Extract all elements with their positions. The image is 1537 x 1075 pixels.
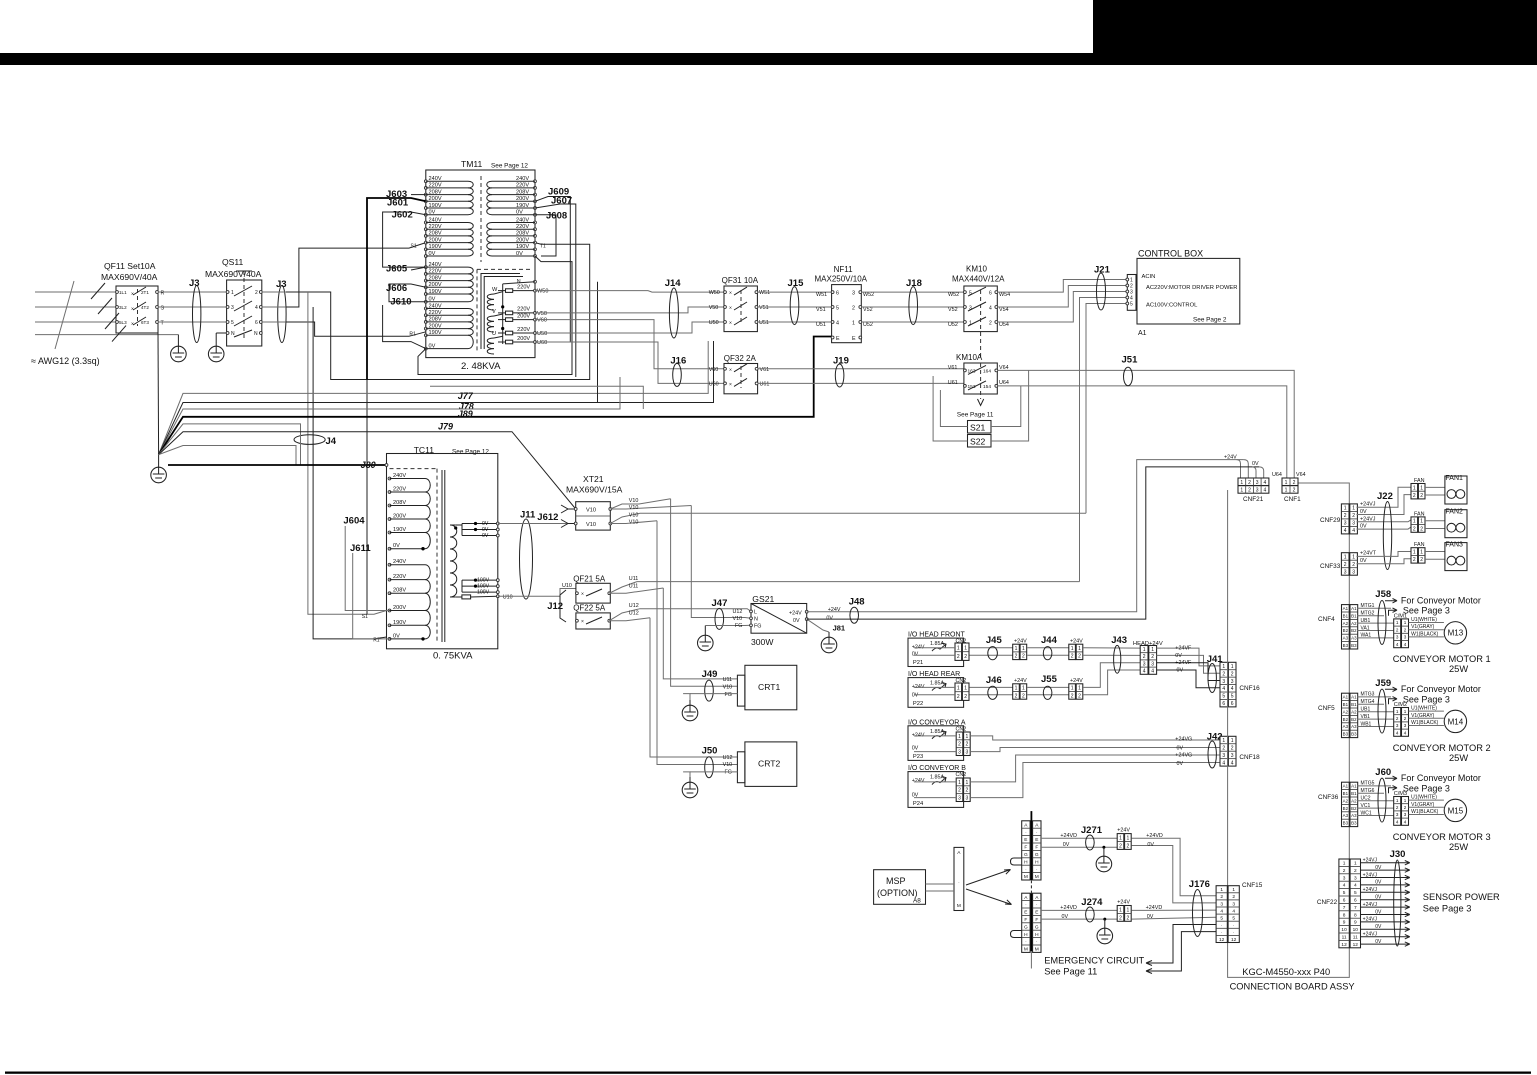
svg-text:208V: 208V (429, 275, 442, 281)
svg-text:V10: V10 (629, 512, 639, 518)
svg-text:CNF1: CNF1 (1284, 496, 1301, 503)
svg-text:QF31 10A: QF31 10A (722, 276, 759, 285)
svg-text:V60: V60 (709, 367, 719, 373)
svg-text:2: 2 (1420, 557, 1423, 563)
svg-text:0V: 0V (429, 343, 436, 349)
svg-text:MTG1: MTG1 (1361, 603, 1375, 609)
connector J15 (790, 287, 799, 325)
svg-text:H: H (1024, 932, 1028, 938)
svg-text:M: M (1035, 947, 1039, 953)
svg-text:B2: B2 (1351, 717, 1357, 722)
svg-text:G: G (1024, 852, 1028, 858)
svg-text:2: 2 (1127, 843, 1130, 849)
svg-text:2: 2 (958, 788, 961, 794)
svg-text:0V: 0V (1147, 914, 1154, 920)
connector J45 (988, 647, 998, 660)
svg-text:0V: 0V (912, 652, 919, 658)
svg-text:I/O HEAD REAR: I/O HEAD REAR (908, 671, 960, 678)
svg-text:2: 2 (1127, 915, 1130, 921)
svg-text:1: 1 (1078, 646, 1081, 652)
wire S feed to TC11 S1 (308, 292, 387, 614)
svg-text:CNF4: CNF4 (1318, 616, 1335, 623)
svg-text:W54: W54 (999, 292, 1010, 298)
arrow to upper connector (966, 870, 1011, 886)
svg-text:U51: U51 (759, 320, 769, 326)
svg-text:190V: 190V (429, 203, 442, 209)
svg-text:2: 2 (1404, 627, 1407, 632)
svg-text:3: 3 (1231, 679, 1234, 685)
svg-text:+24VJ: +24VJ (1363, 902, 1378, 908)
svg-text:200V: 200V (393, 514, 406, 520)
svg-text:+24V: +24V (1070, 639, 1083, 645)
svg-text:1: 1 (964, 685, 967, 691)
svg-text:B2: B2 (1351, 806, 1357, 811)
svg-text:J81: J81 (833, 624, 846, 633)
svg-text:E: E (1024, 837, 1027, 843)
svg-text:×: × (729, 367, 732, 373)
emergency arrow 2 (1146, 925, 1216, 966)
bundle wire 3 (159, 377, 620, 455)
svg-text:+24V: +24V (912, 778, 925, 784)
svg-text:ACIN: ACIN (1142, 274, 1156, 280)
svg-text:+24VD: +24VD (1146, 905, 1163, 911)
svg-text:H: H (1035, 932, 1039, 938)
svg-text:W50: W50 (709, 290, 720, 296)
svg-text:220V: 220V (517, 307, 530, 313)
svg-text:2: 2 (255, 290, 258, 296)
svg-text:U54: U54 (999, 322, 1009, 328)
svg-text:U11: U11 (723, 677, 733, 683)
svg-text:U64: U64 (999, 380, 1009, 386)
svg-text:1: 1 (1222, 738, 1225, 744)
terminal XT21 (566, 474, 623, 530)
footer rule (5, 1072, 1531, 1074)
svg-text:0V: 0V (1063, 842, 1070, 848)
svg-text:2: 2 (1396, 627, 1399, 632)
svg-text:QS11: QS11 (222, 257, 244, 267)
wire TC11 0V to XT21 (498, 523, 568, 525)
ground for CRT2 (683, 772, 690, 777)
svg-text:6: 6 (836, 291, 839, 297)
svg-text:S: S (161, 306, 165, 312)
svg-text:1: 1 (1151, 647, 1154, 653)
ground J271 (1102, 846, 1105, 849)
svg-text:MSP: MSP (886, 876, 906, 886)
svg-text:+24VF: +24VF (1175, 646, 1192, 652)
svg-text:CNF15: CNF15 (1242, 882, 1263, 889)
svg-text:B3: B3 (1343, 732, 1349, 737)
svg-text:+24VG: +24VG (1175, 753, 1192, 759)
svg-text:0V: 0V (1177, 745, 1184, 751)
svg-text:MAX690V/40A: MAX690V/40A (205, 269, 262, 279)
svg-text:5: 5 (1220, 915, 1223, 921)
I/O HEAD FRONT block (908, 632, 969, 667)
svg-text:×: × (729, 306, 732, 312)
svg-text:J610: J610 (390, 297, 411, 308)
svg-text:CONNECTION BOARD ASSY: CONNECTION BOARD ASSY (1230, 982, 1355, 992)
svg-text:0V: 0V (1375, 895, 1382, 901)
svg-text:0V: 0V (1360, 509, 1367, 515)
I/O CONVEYOR B block (908, 765, 970, 807)
svg-text:MTG6: MTG6 (1361, 788, 1375, 794)
svg-text:2: 2 (1220, 894, 1223, 900)
svg-text:0V: 0V (1062, 914, 1069, 920)
connector CNF5 (1342, 693, 1358, 737)
svg-text:U64: U64 (1272, 472, 1282, 478)
svg-text:1: 1 (1240, 480, 1243, 486)
svg-text:J608: J608 (546, 211, 567, 222)
svg-text:WA1: WA1 (1361, 633, 1372, 639)
svg-text:W51: W51 (759, 290, 770, 296)
QF22 output wires U12 (609, 609, 751, 621)
svg-text:R: R (161, 291, 165, 297)
svg-text:2: 2 (1071, 693, 1074, 699)
wire phase R to TM11 R1 (286, 322, 426, 336)
svg-text:A8: A8 (913, 898, 921, 905)
emergency lower A-M connector pair (1011, 893, 1042, 952)
svg-text:B3: B3 (1351, 732, 1357, 737)
svg-text:3: 3 (231, 305, 234, 311)
svg-text:V54: V54 (999, 307, 1009, 313)
svg-text:2: 2 (1343, 868, 1346, 874)
svg-text:0V: 0V (1360, 558, 1367, 564)
wire phase T to TM11 T1 (286, 243, 590, 380)
svg-text:6: 6 (1354, 898, 1357, 904)
wire NF11 to KM10 (861, 291, 964, 293)
svg-text:B1: B1 (1343, 613, 1349, 618)
svg-text:4: 4 (1354, 883, 1357, 889)
contactor KM10 (952, 265, 1005, 359)
svg-text:F: F (1035, 845, 1038, 851)
svg-text:6: 6 (1343, 898, 1346, 904)
svg-text:V10: V10 (733, 616, 743, 622)
svg-text:B1: B1 (1343, 702, 1349, 707)
svg-text:J51: J51 (1122, 355, 1139, 366)
svg-text:4: 4 (1404, 642, 1407, 647)
svg-text:See Page 3: See Page 3 (1403, 694, 1450, 704)
svg-text:3: 3 (966, 795, 969, 801)
svg-text:S1: S1 (411, 243, 417, 249)
svg-text:2: 2 (1344, 562, 1347, 568)
svg-text:1: 1 (231, 290, 234, 296)
wire QS11 N to ground (216, 332, 226, 334)
svg-text:CONVEYOR MOTOR 3: CONVEYOR MOTOR 3 (1393, 832, 1491, 842)
svg-text:2: 2 (958, 742, 961, 748)
svg-text:U61: U61 (948, 380, 958, 386)
svg-text:MTG2: MTG2 (1361, 611, 1375, 617)
svg-text:2: 2 (989, 321, 992, 327)
svg-text:G: G (1035, 924, 1039, 930)
svg-text:A3: A3 (1351, 636, 1357, 641)
svg-text:See Page 11: See Page 11 (957, 412, 994, 419)
svg-text:J89: J89 (458, 409, 473, 419)
svg-text:CNF29: CNF29 (1320, 517, 1341, 524)
svg-text:For Conveyor Motor: For Conveyor Motor (1401, 684, 1481, 694)
svg-text:200V: 200V (429, 237, 442, 243)
emergency arrow 1 (1146, 932, 1216, 974)
svg-text:208V: 208V (393, 500, 406, 506)
svg-text:+24V: +24V (1014, 639, 1027, 645)
svg-text:2: 2 (964, 654, 967, 660)
svg-text:MAX690V/40A: MAX690V/40A (101, 272, 158, 282)
ground PE2 (215, 333, 217, 341)
svg-text:WB1: WB1 (1361, 721, 1372, 727)
arrow to lower connector (966, 889, 1012, 905)
svg-text:B3: B3 (1343, 821, 1349, 826)
svg-text:12: 12 (1341, 942, 1347, 948)
svg-text:G: G (1024, 924, 1028, 930)
svg-text:P24: P24 (913, 801, 924, 807)
svg-text:1: 1 (1413, 549, 1416, 555)
svg-text:190V: 190V (429, 330, 442, 336)
svg-text:1: 1 (1352, 506, 1355, 512)
svg-text:2: 2 (964, 694, 967, 700)
connector J608 wire (535, 215, 556, 256)
svg-text:A3: A3 (1351, 724, 1357, 729)
svg-text:0V: 0V (1147, 842, 1154, 848)
svg-text:U12: U12 (723, 755, 733, 761)
svg-text:3L2: 3L2 (119, 305, 127, 310)
connector J43 (1114, 645, 1121, 673)
svg-text:U52: U52 (948, 322, 958, 328)
svg-text:6: 6 (1222, 701, 1225, 707)
svg-text:1: 1 (957, 685, 960, 691)
connector J59 (1378, 689, 1386, 733)
svg-text:S22: S22 (970, 437, 986, 447)
svg-text:2: 2 (1404, 716, 1407, 721)
svg-text:J80: J80 (361, 460, 376, 470)
svg-text:2: 2 (957, 654, 960, 660)
svg-text:KM10: KM10 (966, 265, 987, 274)
svg-text:See Page 3: See Page 3 (1403, 606, 1450, 616)
connector J22 (1383, 502, 1391, 570)
svg-text:1: 1 (1420, 519, 1423, 525)
svg-text:9: 9 (1354, 920, 1357, 926)
wire J271 0V (1041, 846, 1117, 848)
svg-text:+24VD: +24VD (1146, 833, 1163, 839)
motor M15 (1444, 799, 1466, 821)
mid drop wires to CRT units (650, 499, 751, 765)
svg-text:208V: 208V (429, 189, 442, 195)
svg-text:M: M (957, 903, 961, 909)
svg-text:0V: 0V (1375, 909, 1382, 915)
svg-text:1: 1 (1285, 488, 1288, 494)
svg-text:2: 2 (1222, 671, 1225, 677)
svg-text:J14: J14 (665, 278, 682, 289)
svg-text:2: 2 (1248, 488, 1251, 494)
connector CNF16 (1220, 662, 1236, 707)
svg-text:J77: J77 (458, 391, 474, 401)
svg-text:4: 4 (836, 321, 839, 327)
svg-text:220V: 220V (516, 183, 529, 189)
connector J3 first (193, 286, 201, 343)
svg-text:U11: U11 (629, 583, 639, 589)
connector J49 (705, 680, 714, 701)
svg-text:QF21 5A: QF21 5A (573, 575, 606, 584)
svg-text:V10: V10 (586, 522, 596, 528)
noise filter NF11 (815, 265, 868, 343)
svg-text:B2: B2 (1343, 806, 1349, 811)
connector J16 (673, 363, 682, 386)
svg-text:VB1: VB1 (1361, 714, 1371, 720)
wire to J44 (1027, 647, 1069, 649)
svg-text:J59: J59 (1375, 678, 1391, 689)
svg-text:1: 1 (852, 321, 855, 327)
bundle wire J89 thick (159, 337, 832, 455)
svg-text:1: 1 (966, 780, 969, 786)
svg-text:208V: 208V (393, 588, 406, 594)
svg-text:KM10A: KM10A (956, 353, 983, 362)
breaker QF22 (573, 604, 610, 630)
svg-text:300W: 300W (751, 637, 774, 647)
svg-text:B1: B1 (1351, 791, 1357, 796)
svg-text:2: 2 (1404, 805, 1407, 810)
svg-text:A1: A1 (1343, 695, 1349, 700)
svg-text:+24VT: +24VT (1360, 551, 1377, 557)
svg-text:×: × (581, 592, 584, 598)
svg-text:B1: B1 (1351, 613, 1357, 618)
svg-text:V10: V10 (586, 508, 596, 514)
svg-text:220V: 220V (393, 487, 406, 493)
svg-text:CN2: CN2 (956, 726, 967, 732)
QF21 output wires U11 (609, 582, 1079, 594)
svg-text:UC2: UC2 (1361, 796, 1371, 802)
svg-text:2. 48KVA: 2. 48KVA (461, 361, 501, 372)
svg-text:V10: V10 (629, 498, 639, 504)
svg-text:M13: M13 (1448, 629, 1464, 638)
svg-text:3: 3 (1396, 635, 1399, 640)
svg-text:TM11: TM11 (461, 159, 483, 169)
svg-text:2: 2 (1413, 557, 1416, 563)
svg-text:CRT2: CRT2 (758, 759, 781, 769)
svg-text:2: 2 (1222, 745, 1225, 751)
connector J18 (909, 287, 918, 325)
connector CNF18 (1220, 736, 1236, 766)
svg-text:2: 2 (1352, 513, 1355, 519)
svg-text:1: 1 (1413, 485, 1416, 491)
contactor KM10A (956, 353, 998, 399)
connector J19 (835, 364, 844, 387)
svg-text:J3: J3 (189, 278, 200, 289)
wire U10 to QF21 (498, 589, 576, 597)
connector J274 (1086, 907, 1095, 922)
svg-text:+24VJ: +24VJ (1363, 917, 1378, 923)
svg-text:154: 154 (983, 384, 991, 390)
svg-text:0V: 0V (1360, 524, 1367, 530)
svg-text:T1: T1 (540, 244, 546, 250)
svg-text:W: W (492, 287, 498, 293)
svg-text:10: 10 (1341, 927, 1347, 933)
svg-text:+24VJ: +24VJ (1363, 872, 1378, 878)
svg-text:QF32 2A: QF32 2A (724, 354, 757, 363)
svg-text:VC1: VC1 (1361, 803, 1371, 809)
svg-text:J271: J271 (1081, 825, 1103, 836)
svg-text:J602: J602 (392, 210, 413, 221)
svg-text:1.85A: 1.85A (930, 641, 944, 647)
connector J3 second (278, 286, 286, 343)
svg-text:7: 7 (1354, 905, 1357, 911)
svg-text:A1: A1 (1351, 606, 1357, 611)
svg-text:FG: FG (725, 692, 733, 698)
svg-text:N: N (231, 331, 235, 337)
connector J609 wire (535, 197, 570, 342)
shield line lower (1030, 893, 1032, 951)
CRT2 box (723, 742, 797, 787)
svg-text:200V: 200V (516, 237, 529, 243)
breaker QF11 (101, 261, 165, 333)
svg-text:W51: W51 (816, 292, 827, 298)
svg-text:2: 2 (1413, 526, 1416, 532)
svg-text:0V: 0V (1175, 653, 1182, 659)
breaker QF31 (709, 276, 770, 332)
svg-text:U10: U10 (562, 583, 572, 589)
svg-text:+24V: +24V (912, 732, 925, 738)
svg-text:CNF5: CNF5 (1318, 705, 1335, 712)
connector J606 wire (389, 284, 426, 302)
wire J80 run (168, 464, 387, 466)
wires CNF4 rows (1357, 599, 1397, 639)
svg-text:+24VD: +24VD (1060, 833, 1077, 839)
wire KM10 to J21 pin3 (997, 292, 1127, 323)
svg-text:190V: 190V (429, 244, 442, 250)
connector J271 (1086, 835, 1095, 850)
wire QS11 outputs (262, 291, 286, 293)
svg-text:3: 3 (1352, 569, 1355, 575)
svg-text:1.85A: 1.85A (930, 729, 944, 735)
svg-text:B3: B3 (1351, 643, 1357, 648)
wire head rear chain (969, 686, 1012, 688)
TM11 secondary bus (502, 284, 504, 344)
svg-text:J605: J605 (386, 264, 408, 275)
CRT1 box (723, 665, 797, 710)
svg-text:A3: A3 (1343, 724, 1349, 729)
switch S21 (968, 421, 992, 434)
connector CNF36 (1342, 782, 1358, 826)
svg-text:2: 2 (1119, 915, 1122, 921)
ground for CRT1 (683, 694, 690, 700)
wire 0V bus to CNF21 (807, 467, 1259, 619)
svg-text:EMERGENCY CIRCUIT: EMERGENCY CIRCUIT (1044, 956, 1144, 966)
transformer TM11 (424, 159, 548, 358)
svg-text:1: 1 (958, 780, 961, 786)
svg-text:J612: J612 (537, 512, 558, 523)
svg-text:5: 5 (836, 306, 839, 312)
svg-text:J79: J79 (438, 422, 453, 432)
svg-text:A1: A1 (1343, 606, 1349, 611)
svg-text:J44: J44 (1041, 635, 1058, 646)
svg-text:A2: A2 (1343, 621, 1349, 626)
svg-text:200V: 200V (429, 196, 442, 202)
motor M14 (1444, 710, 1466, 732)
svg-text:+24V: +24V (1014, 678, 1027, 684)
connector J602 wire (383, 212, 426, 267)
svg-text:+24V: +24V (1224, 455, 1237, 461)
svg-text:5: 5 (1343, 890, 1346, 896)
svg-text:3: 3 (1231, 753, 1234, 759)
svg-text:CONTROL BOX: CONTROL BOX (1138, 249, 1203, 259)
TC11 polarity dots (421, 547, 424, 550)
connector J4 (294, 435, 325, 445)
svg-text:5: 5 (1130, 302, 1133, 308)
star point ground (158, 455, 160, 462)
svg-text:6: 6 (255, 320, 258, 326)
wire head front row1 (969, 647, 1012, 649)
svg-text:B2: B2 (1343, 628, 1349, 633)
svg-text:U52: U52 (863, 322, 873, 328)
svg-text:V1(GRAY): V1(GRAY) (1411, 713, 1435, 719)
svg-text:1.85A: 1.85A (930, 681, 944, 687)
svg-text:J58: J58 (1375, 589, 1391, 600)
